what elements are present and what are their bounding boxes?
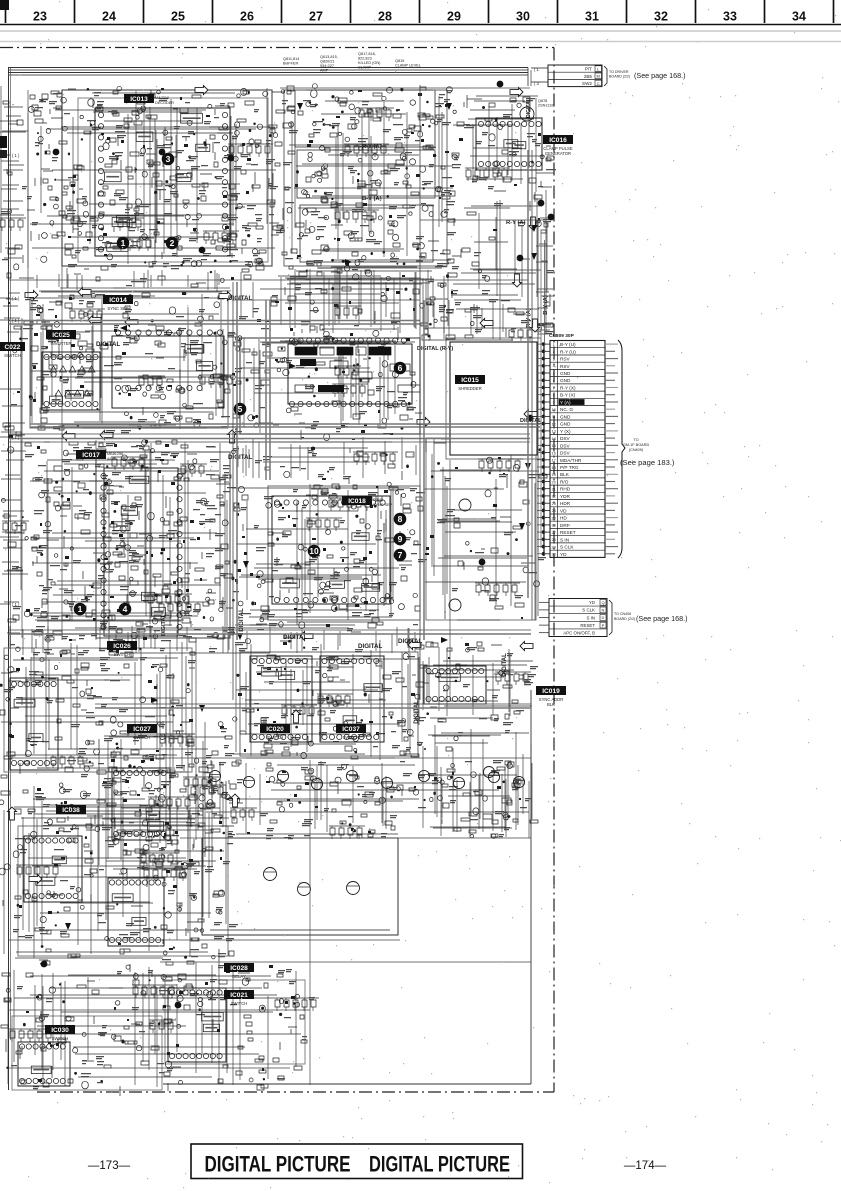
svg-text:TO: TO — [633, 438, 638, 442]
node marker 2 — [166, 237, 179, 250]
svg-text:13: 13 — [552, 430, 556, 434]
wire junction arrow — [531, 253, 537, 260]
svg-text:29: 29 — [552, 545, 556, 549]
wire junction arrow — [65, 923, 71, 930]
circuit cluster: band above IC026 — [10, 622, 415, 657]
svg-text:S CLK: S CLK — [582, 608, 595, 613]
op-amp U IC017 chroma amp chip — [101, 468, 182, 636]
svg-text:DSV: DSV — [560, 436, 571, 441]
svg-text:YDR: YDR — [560, 494, 571, 499]
op-amp U IC027 switch chip — [112, 768, 170, 840]
wire signal flow arrow — [228, 430, 237, 443]
net label R-Y (A) top — [362, 144, 382, 150]
svg-text:NC. G: NC. G — [560, 407, 573, 412]
svg-text:R-Y (X): R-Y (X) — [560, 386, 576, 391]
wire signal flow arrow — [524, 410, 537, 419]
wire signal flow arrow — [88, 316, 101, 325]
svg-text:26: 26 — [240, 10, 254, 24]
svg-text:BOARD (2/2): BOARD (2/2) — [614, 617, 635, 621]
center chip internal function cells — [295, 347, 420, 392]
label IC019 — [536, 686, 566, 707]
svg-text:C022: C022 — [5, 344, 21, 351]
label IC030 — [45, 1025, 75, 1041]
svg-text:DIGITAL: DIGITAL — [520, 418, 542, 424]
svg-text:IC037: IC037 — [342, 726, 360, 733]
svg-text:DECODER: DECODER — [155, 101, 174, 105]
circuit cluster: IC014 sync sep / IC025 inverter area — [29, 292, 237, 433]
svg-text:934-027: 934-027 — [320, 64, 334, 68]
svg-text:3: 3 — [553, 357, 555, 361]
op-amp U IC019 sync address chip — [424, 666, 486, 704]
wire signal flow arrow — [417, 418, 430, 427]
svg-text:2B5: 2B5 — [584, 74, 593, 79]
svg-text:29: 29 — [447, 10, 461, 24]
net label B-Y (A) vert — [543, 295, 549, 315]
svg-text:23: 23 — [552, 502, 556, 506]
svg-text:SWITCH: SWITCH — [343, 735, 360, 740]
svg-text:19: 19 — [552, 473, 556, 477]
node test point — [228, 155, 235, 162]
svg-text:Y (A): Y (A) — [560, 400, 571, 405]
svg-text:24: 24 — [552, 509, 556, 513]
svg-text:BLK: BLK — [560, 472, 570, 477]
label IC022 — [0, 342, 25, 358]
svg-text:25: 25 — [552, 516, 556, 520]
note see page 168 mid — [636, 614, 688, 623]
svg-text:25: 25 — [171, 10, 185, 24]
wire signal flow arrow — [125, 318, 138, 327]
node marker 8 — [394, 513, 407, 526]
wire signal flow arrow — [100, 431, 113, 440]
svg-text:DIGITAL: DIGITAL — [228, 454, 253, 461]
svg-text:IC025: IC025 — [52, 332, 70, 339]
node marker 7 — [394, 549, 407, 562]
svg-text:9: 9 — [553, 401, 555, 405]
svg-text:S IN: S IN — [586, 615, 595, 620]
svg-text:GM-1F BOARD: GM-1F BOARD — [623, 443, 650, 447]
svg-text:Q820/21: Q820/21 — [320, 60, 335, 64]
circuit cluster: right of IC037 — [423, 642, 538, 725]
svg-text:GND: GND — [560, 378, 571, 383]
net label DIGITAL r1 — [417, 346, 453, 352]
svg-text:IC020: IC020 — [266, 726, 284, 733]
wire junction arrow — [199, 705, 205, 712]
node marker 9 — [394, 533, 407, 546]
circuit cluster: IC017 chroma area — [30, 440, 236, 648]
svg-text:RSV: RSV — [560, 357, 571, 362]
op-amp U IC030 switch chip — [18, 1042, 70, 1086]
svg-text:1: 1 — [78, 604, 83, 614]
svg-text:4: 4 — [123, 604, 128, 614]
svg-text:P/P TRG: P/P TRG — [560, 465, 579, 470]
svg-text:27: 27 — [552, 531, 556, 535]
circuit cluster: IC013 chroma decoder area — [28, 86, 285, 270]
node test point — [199, 247, 206, 254]
svg-text:Q817,818,: Q817,818, — [358, 52, 376, 56]
svg-text:6: 6 — [553, 379, 555, 383]
wire junction arrow — [519, 523, 525, 530]
svg-text:R-Y (A): R-Y (A) — [362, 144, 382, 150]
note Q878 — [538, 99, 554, 108]
svg-text:12: 12 — [552, 422, 556, 426]
wire: functional block outline boxes — [4, 90, 536, 1090]
svg-text:17: 17 — [552, 459, 556, 463]
svg-text:—174—: —174— — [624, 1160, 667, 1172]
node test point — [548, 214, 555, 221]
circuit cluster: transistor buffer row — [198, 760, 532, 839]
net label R-Y (A) — [506, 220, 526, 226]
svg-text:IC017: IC017 — [82, 452, 100, 459]
wire: board boundary dash-dot frame — [0, 48, 554, 1093]
node test point — [538, 200, 545, 207]
svg-text:SHREDDER: SHREDDER — [458, 386, 482, 391]
svg-text:DIGITAL: DIGITAL — [358, 643, 383, 650]
label IC020 — [260, 724, 290, 740]
wire signal flow arrow — [292, 710, 301, 723]
node test point — [517, 255, 524, 262]
svg-text:4: 4 — [553, 365, 555, 369]
svg-text:B-Y (A): B-Y (A) — [362, 196, 382, 202]
svg-text:C: C — [597, 81, 600, 86]
note see page 183 — [620, 458, 675, 467]
node marker 10 — [308, 545, 321, 558]
svg-text:P/B/R: P/B/R — [373, 498, 383, 502]
net label DIGITAL v2 — [502, 653, 508, 677]
svg-text:INVERTER: INVERTER — [50, 341, 71, 346]
wire signal flow arrow — [510, 88, 523, 97]
svg-text:DRF: DRF — [560, 523, 570, 528]
svg-text:APC ON/OFF, B: APC ON/OFF, B — [563, 631, 595, 636]
svg-text:R-Y (A): R-Y (A) — [506, 220, 526, 226]
circuit cluster: right column below IC015 — [424, 439, 547, 620]
svg-text:TO CN406: TO CN406 — [614, 612, 631, 616]
svg-text:IC013: IC013 — [130, 96, 148, 103]
svg-text:BLK: BLK — [547, 702, 555, 707]
wire junction arrow — [120, 325, 127, 331]
svg-text:S IN: S IN — [560, 537, 569, 542]
net label DIGITAL v1 — [239, 608, 245, 632]
transistor Q844-846 chroma amp block — [202, 838, 398, 935]
svg-text:1: 1 — [121, 238, 126, 248]
label IC018 — [342, 496, 393, 507]
svg-text:SWITCH: SWITCH — [267, 735, 284, 740]
svg-text:IC028: IC028 — [230, 965, 248, 972]
circuit cluster: left margin column — [0, 302, 34, 638]
svg-text:MDA/THR: MDA/THR — [560, 458, 582, 463]
label IC026 — [107, 641, 137, 657]
wire signal flow arrow — [480, 319, 493, 328]
op-amp U IC014 sync separator chip — [112, 330, 224, 408]
frame: top ruler with grid numbers 23-34 — [0, 0, 841, 25]
circuit cluster: bottom-left area — [1, 962, 319, 1096]
svg-text:DSV: DSV — [560, 451, 571, 456]
svg-text:DIGITAL: DIGITAL — [228, 295, 253, 302]
svg-text:6: 6 — [398, 363, 403, 373]
svg-text:KILLED (ON): KILLED (ON) — [358, 61, 381, 65]
svg-text:DIGITAL PICTURE: DIGITAL PICTURE — [205, 1152, 351, 1177]
svg-text:AMP: AMP — [107, 457, 116, 461]
svg-text:30: 30 — [552, 553, 556, 557]
svg-text:8: 8 — [553, 394, 555, 398]
svg-text:SWITCH: SWITCH — [114, 652, 131, 657]
svg-text:CN809 30P: CN809 30P — [549, 333, 575, 339]
svg-text:TO DRIVER: TO DRIVER — [609, 70, 629, 74]
svg-text:10: 10 — [309, 546, 319, 556]
svg-text:DIGITAL: DIGITAL — [161, 614, 167, 636]
svg-text:GND: GND — [560, 422, 571, 427]
svg-text:DIGITAL: DIGITAL — [239, 608, 245, 632]
svg-text:IC026: IC026 — [113, 643, 131, 650]
node marker 1 — [117, 237, 130, 250]
connector CN driver 3P — [531, 65, 630, 87]
svg-text:YD: YD — [560, 552, 567, 557]
svg-text:RESET: RESET — [560, 530, 576, 535]
transistor row Q841-Q850 buffers — [209, 770, 524, 789]
wire junction arrow — [525, 463, 531, 470]
svg-text:IC030: IC030 — [51, 1027, 69, 1034]
label IC013 — [124, 94, 174, 105]
op-amp U IC015 shredder chip (large box) — [446, 338, 541, 459]
svg-text:IC038: IC038 — [62, 807, 80, 814]
svg-text:Q819: Q819 — [395, 59, 404, 63]
net label DIGITAL — [96, 341, 121, 348]
connector CN control 5P — [539, 599, 635, 637]
svg-text:28: 28 — [552, 538, 556, 542]
label IC027 — [127, 724, 157, 740]
svg-text:26: 26 — [552, 524, 556, 528]
svg-text:( 1 ): ( 1 ) — [12, 296, 20, 301]
net label DIGITAL — [228, 454, 253, 461]
title block DIGITAL PICTURE — [191, 1144, 523, 1179]
svg-text:(CN409): (CN409) — [629, 448, 644, 452]
page number 173 — [88, 1160, 131, 1172]
svg-text:5: 5 — [553, 372, 555, 376]
node test point — [159, 149, 166, 156]
label IC037 — [336, 724, 366, 740]
label IC021 — [224, 990, 254, 1006]
net label DIGITAL v5 — [161, 614, 167, 636]
circuit cluster: right feed to CN809 — [420, 300, 553, 341]
wire signal flow arrow — [300, 632, 313, 641]
svg-text:22: 22 — [552, 495, 556, 499]
svg-text:30: 30 — [516, 10, 530, 24]
wire signal flow arrow — [520, 642, 533, 651]
svg-text:( 3: ( 3 — [534, 81, 540, 86]
label IC015 — [455, 375, 485, 391]
svg-text:27: 27 — [309, 10, 323, 24]
wire signal flow arrow — [8, 807, 17, 820]
svg-text:B-Y (A): B-Y (A) — [543, 295, 549, 315]
net label DIGITAL v3 — [414, 700, 420, 724]
svg-text:16: 16 — [552, 451, 556, 455]
svg-text:28: 28 — [378, 10, 392, 24]
svg-text:( 1 ): ( 1 ) — [12, 318, 20, 323]
svg-text:DIGITAL: DIGITAL — [398, 638, 423, 645]
svg-text:SYNC SEP: SYNC SEP — [107, 306, 128, 311]
op-amp U IC037 switch chip — [320, 656, 384, 742]
circuit cluster: area below top amps — [285, 268, 454, 340]
circuit cluster: IC027 area — [94, 721, 243, 880]
svg-text:AMP: AMP — [320, 69, 329, 73]
op-amp U IC013 chroma decoder chip — [95, 108, 230, 256]
svg-text:GND: GND — [560, 414, 571, 419]
svg-text:IC016: IC016 — [549, 137, 567, 144]
svg-text:—173—: —173— — [88, 1160, 131, 1172]
op-amp U IC021 buffer chip — [168, 988, 226, 1062]
svg-text:Q813,815,: Q813,815, — [320, 55, 338, 59]
label IC025 — [46, 330, 76, 346]
note: transistor group captions — [283, 52, 421, 73]
circuit cluster: IC020/IC037 switch area — [233, 638, 426, 759]
op-amp U IC038 amp chip A — [24, 836, 82, 902]
node test point — [527, 415, 534, 422]
svg-text:VD: VD — [560, 508, 567, 513]
net label B-Y (A) top — [362, 196, 382, 202]
svg-text:CLAMP: CLAMP — [358, 66, 372, 70]
note see page 168 top — [634, 71, 686, 80]
scan mark left edge — [0, 136, 7, 158]
svg-text:( 1 ): ( 1 ) — [12, 153, 20, 158]
svg-text:7: 7 — [553, 386, 555, 390]
svg-text:CLAMP LEVEL: CLAMP LEVEL — [395, 64, 421, 68]
svg-text:14: 14 — [552, 437, 556, 441]
op-amp U IC026 buffer chip — [10, 678, 58, 770]
wire junction arrow — [243, 561, 249, 568]
svg-text:( 1 ): ( 1 ) — [12, 602, 20, 607]
svg-text:B-Y (U): B-Y (U) — [560, 342, 576, 347]
svg-text:(See page 168.): (See page 168.) — [636, 614, 688, 623]
svg-text:GENERATOR: GENERATOR — [545, 151, 571, 156]
svg-text:HD: HD — [560, 516, 567, 521]
svg-text:Y (X): Y (X) — [560, 429, 571, 434]
wire junction arrow — [289, 363, 296, 369]
label IC038 — [56, 805, 86, 814]
wire: main horizontal buses — [9, 88, 546, 1068]
label IC028 — [224, 963, 254, 979]
net label DIGITAL — [358, 643, 383, 650]
label IC017 — [76, 450, 123, 461]
svg-text:34: 34 — [792, 10, 806, 24]
net label DIGITAL — [228, 295, 253, 302]
transistor Q878 — [520, 107, 534, 121]
svg-text:YD: YD — [589, 600, 595, 605]
svg-text:24: 24 — [102, 10, 116, 24]
svg-text:DIGITAL: DIGITAL — [502, 653, 508, 677]
svg-text:D: D — [602, 615, 605, 620]
svg-text:SYNC SEP: SYNC SEP — [373, 503, 393, 507]
svg-text:3: 3 — [166, 154, 171, 164]
svg-text:RSV: RSV — [560, 364, 571, 369]
svg-text:MB81256: MB81256 — [107, 452, 123, 456]
svg-text:5: 5 — [238, 404, 243, 414]
svg-text:P/T: P/T — [585, 67, 592, 72]
svg-text:IC021: IC021 — [230, 992, 248, 999]
wire signal flow arrow — [531, 319, 540, 332]
wire signal flow arrow — [219, 292, 232, 301]
svg-text:GND: GND — [560, 371, 571, 376]
wire signal flow arrow — [78, 288, 91, 297]
svg-text:(See page 183.): (See page 183.) — [620, 458, 675, 467]
circuit cluster: mid strip — [232, 434, 417, 484]
svg-text:31: 31 — [585, 10, 599, 24]
scan artifact lines — [0, 31, 841, 42]
svg-text:20: 20 — [552, 480, 556, 484]
wire junction arrow — [151, 697, 158, 703]
circuit cluster: IC038 amplifier area — [0, 776, 238, 965]
svg-text:7: 7 — [398, 550, 403, 560]
svg-text:32: 32 — [654, 10, 668, 24]
svg-text:R-Y (A): R-Y (A) — [526, 308, 532, 328]
wire signal flow arrow — [29, 875, 42, 884]
wire signal flow arrow — [231, 794, 240, 807]
svg-text:DIGITAL (R-Y): DIGITAL (R-Y) — [417, 346, 453, 352]
op-amp U IC038 amp chip B — [108, 878, 164, 946]
svg-text:SWITCH: SWITCH — [231, 1001, 248, 1006]
svg-text:23: 23 — [33, 10, 47, 24]
svg-text:33: 33 — [723, 10, 737, 24]
svg-text:SWITCH: SWITCH — [52, 1036, 69, 1041]
svg-text:N: N — [602, 608, 605, 613]
node test point — [41, 961, 48, 968]
svg-text:Q811,814: Q811,814 — [283, 57, 299, 61]
wire: left board edge bus — [9, 67, 11, 1090]
node marker 1b — [74, 603, 87, 616]
circuit cluster: right strip below transistor row — [423, 725, 538, 832]
node test point — [53, 149, 60, 156]
connector CN809 30P — [542, 333, 650, 558]
svg-text:RHD: RHD — [560, 487, 571, 492]
wire signal flow arrow — [408, 641, 421, 650]
node marker 6 — [394, 362, 407, 375]
op-amp U center digital picture decoder chip — [288, 338, 412, 407]
node test point — [175, 1002, 182, 1009]
svg-text:Q878: Q878 — [538, 99, 547, 103]
circuit cluster: left column top — [0, 86, 35, 300]
svg-text:S CLK: S CLK — [560, 545, 574, 550]
net label DIGITAL r2 — [520, 418, 542, 424]
svg-text:1: 1 — [553, 343, 555, 347]
net label DIGITAL v4 — [526, 98, 532, 118]
svg-text:18: 18 — [552, 466, 556, 470]
svg-text:DIGITAL: DIGITAL — [283, 634, 308, 641]
svg-text:MA7210: MA7210 — [155, 96, 169, 100]
op-amp U IC025 inverter chip — [42, 352, 100, 410]
svg-text:P: P — [602, 623, 605, 628]
svg-text:10: 10 — [552, 408, 556, 412]
svg-text:IC015: IC015 — [461, 377, 479, 384]
svg-text:SWITCH: SWITCH — [4, 353, 21, 358]
circuit cluster: center digital decoder chip area — [230, 336, 422, 440]
svg-text:RESET: RESET — [580, 623, 595, 628]
connector: left edge page links — [0, 153, 20, 607]
svg-text:DELAY: DELAY — [232, 974, 246, 979]
svg-text:822,823: 822,823 — [358, 57, 372, 61]
wire junction arrow — [345, 259, 352, 265]
svg-text:R/O: R/O — [560, 480, 569, 485]
svg-text:11: 11 — [552, 415, 556, 419]
wire signal flow arrow — [513, 274, 522, 287]
svg-text:DIGITAL PICTURE: DIGITAL PICTURE — [369, 1152, 510, 1177]
svg-text:BOARD (2/2): BOARD (2/2) — [609, 75, 630, 79]
circuit cluster: right mid column — [451, 198, 554, 302]
wire signal flow arrow — [62, 432, 75, 441]
svg-text:DIGITAL: DIGITAL — [414, 700, 420, 724]
circuit cluster: band below IC013 — [37, 268, 234, 292]
svg-text:( 1: ( 1 — [534, 67, 540, 72]
svg-text:9: 9 — [398, 534, 403, 544]
op-amp U IC020 switch chip — [250, 656, 312, 742]
svg-text:IC018: IC018 — [348, 498, 366, 505]
